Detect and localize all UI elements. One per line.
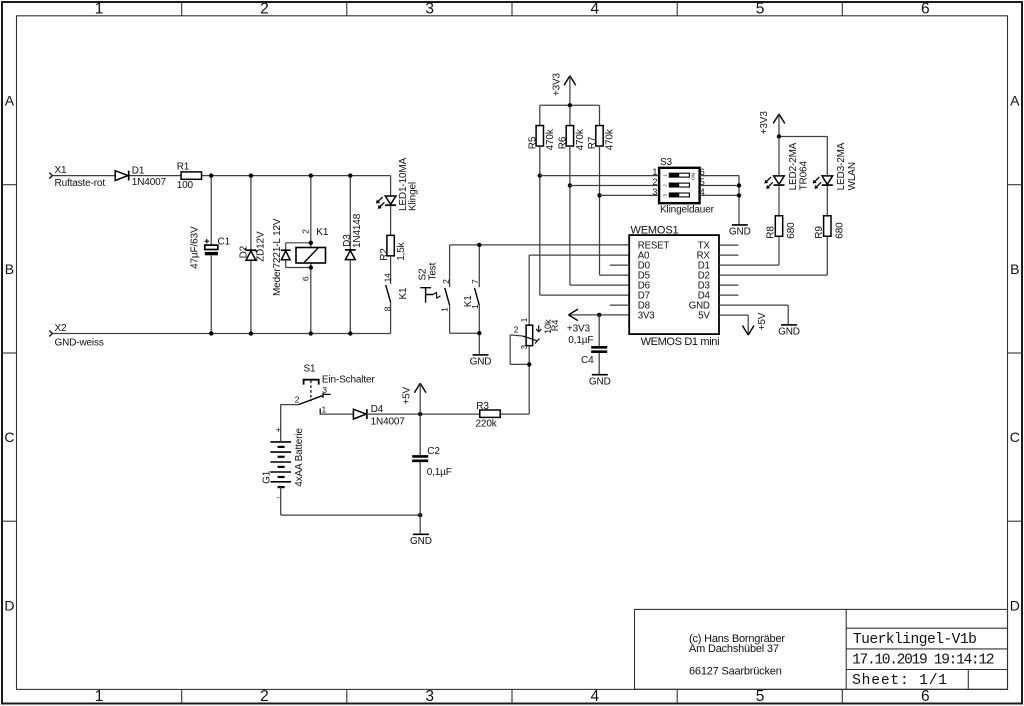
svg-text:1: 1 bbox=[95, 688, 103, 705]
wire D5 net bbox=[600, 274, 630, 276]
wire R1 to LED1 corner bbox=[201, 175, 390, 177]
svg-text:B: B bbox=[5, 261, 14, 277]
wire top to D3 bbox=[349, 176, 351, 250]
ground bbox=[410, 534, 432, 547]
svg-text:X2: X2 bbox=[55, 323, 68, 334]
svg-text:C2: C2 bbox=[427, 446, 440, 457]
wire LED3 to R9 bbox=[826, 186, 828, 216]
svg-text:47µF/63V: 47µF/63V bbox=[189, 226, 200, 269]
svg-text:2: 2 bbox=[295, 394, 300, 404]
capacitor C1 47uF/63V bbox=[189, 226, 230, 269]
connector pin X1 bbox=[49, 165, 105, 189]
node R7-S3.3 junction bbox=[597, 193, 601, 197]
LED2 LED2-2MA TR064 bbox=[764, 142, 809, 190]
resistor R7 470k bbox=[587, 126, 615, 151]
wire bus to R5 bbox=[539, 105, 541, 125]
capacitor C4 0,1uF bbox=[568, 335, 607, 366]
svg-text:+3V3: +3V3 bbox=[567, 323, 591, 334]
resistor R5 470k bbox=[527, 126, 556, 151]
svg-text:B: B bbox=[1010, 261, 1019, 277]
node 5V node bbox=[418, 412, 422, 416]
svg-text:680: 680 bbox=[786, 222, 797, 239]
switch S1 Ein-Schalter bbox=[295, 364, 376, 415]
wire to GND bbox=[419, 515, 421, 534]
wire S3.6 to gnd bbox=[700, 175, 739, 177]
svg-text:GND: GND bbox=[589, 376, 611, 387]
node LED bus junction bbox=[777, 134, 781, 138]
ground bbox=[729, 225, 751, 238]
node RESET net junction bbox=[477, 243, 481, 247]
svg-text:3V3: 3V3 bbox=[638, 311, 655, 322]
node K1 coil bottom bbox=[309, 265, 313, 269]
svg-text:R3: R3 bbox=[476, 401, 489, 412]
IC U WEMOS1 WEMOS D1 mini bbox=[629, 224, 719, 348]
wire S3.4 to gnd bbox=[700, 194, 739, 196]
svg-text:GND: GND bbox=[410, 536, 432, 547]
wire S3 row2 bbox=[570, 185, 659, 187]
svg-text:+: + bbox=[276, 425, 281, 435]
node top net x=350.3 bbox=[348, 173, 352, 177]
wire 3V3 led bus bbox=[779, 136, 827, 138]
svg-text:6: 6 bbox=[921, 1, 929, 18]
wire R9 to D2 net bbox=[826, 236, 828, 275]
wire X1 to D1 bbox=[52, 175, 116, 177]
svg-text:3: 3 bbox=[652, 187, 657, 197]
wire R5 down to D7 net bbox=[539, 146, 541, 295]
relay contact K1 pins 7/1 bbox=[463, 279, 480, 309]
svg-text:1N4148: 1N4148 bbox=[352, 213, 363, 248]
wire D4 stub bbox=[719, 294, 738, 296]
wire 3V3 net bbox=[569, 314, 630, 316]
svg-text:Ein-Schalter: Ein-Schalter bbox=[322, 374, 375, 385]
wire D4 to R3 bbox=[367, 413, 480, 415]
svg-text:1,5k: 1,5k bbox=[396, 241, 407, 260]
svg-text:14: 14 bbox=[382, 273, 392, 283]
wire C4 to GND bbox=[598, 353, 600, 375]
wire to GND bbox=[478, 333, 480, 354]
node gnd net junction bbox=[477, 331, 481, 335]
svg-text:C1: C1 bbox=[218, 236, 231, 247]
svg-text:470k: 470k bbox=[604, 128, 615, 150]
svg-text:3: 3 bbox=[425, 1, 433, 18]
wire R2 to K1 contact bbox=[390, 256, 392, 284]
svg-text:+5V: +5V bbox=[402, 386, 413, 404]
node R5-S3.1 junction bbox=[538, 173, 542, 177]
svg-text:1: 1 bbox=[322, 404, 327, 414]
battery G1 4xAA Batterie bbox=[262, 425, 305, 502]
wire D7 net bbox=[540, 294, 629, 296]
svg-text:3: 3 bbox=[519, 345, 529, 350]
svg-text:C: C bbox=[4, 429, 14, 445]
svg-text:R4: R4 bbox=[550, 320, 560, 331]
svg-text:470k: 470k bbox=[575, 128, 586, 150]
ground bbox=[589, 375, 611, 388]
wire LED1 to R2 bbox=[390, 206, 392, 236]
node top net x=310.8 bbox=[309, 173, 313, 177]
wire K1 coil to X2 net bbox=[310, 263, 312, 334]
svg-text:680: 680 bbox=[835, 222, 846, 239]
svg-text:R9: R9 bbox=[814, 226, 825, 239]
wire gnd net bbox=[450, 332, 480, 334]
node top net x=211.2 bbox=[209, 173, 213, 177]
svg-text:1N4007: 1N4007 bbox=[132, 177, 167, 188]
svg-text:GND-weiss: GND-weiss bbox=[55, 338, 104, 349]
supply +5V arrow bbox=[742, 312, 768, 335]
node X2 net x=211.2 bbox=[209, 331, 213, 335]
svg-text:3: 3 bbox=[425, 688, 433, 705]
resistor R6 470k bbox=[557, 126, 586, 151]
ground bbox=[470, 355, 492, 368]
svg-text:ON: ON bbox=[691, 173, 696, 180]
svg-text:-: - bbox=[277, 493, 280, 503]
node R4 node bbox=[527, 362, 531, 366]
resistor R3 220k bbox=[476, 401, 501, 430]
svg-text:1N4007: 1N4007 bbox=[371, 416, 406, 427]
wire D1 net bbox=[719, 264, 779, 266]
svg-text:S3: S3 bbox=[660, 157, 673, 168]
svg-text:G1: G1 bbox=[262, 470, 273, 484]
wire D1 to R1 bbox=[129, 175, 182, 177]
svg-text:5: 5 bbox=[756, 688, 764, 705]
svg-text:1: 1 bbox=[652, 167, 657, 177]
supply +5V arrow bbox=[402, 383, 426, 404]
svg-text:X1: X1 bbox=[55, 165, 68, 176]
wire RESET net bbox=[450, 244, 630, 246]
svg-text:Tuerklingel-V1b: Tuerklingel-V1b bbox=[853, 632, 976, 648]
connector pin X2 bbox=[49, 323, 104, 349]
wire D2 net bbox=[719, 274, 827, 276]
supply +3V3 arrow bbox=[759, 111, 785, 135]
wire R4 wiper to node bbox=[510, 363, 529, 365]
wire K1 contact 2 to gnd net bbox=[478, 305, 480, 333]
svg-text:WEMOS D1 mini: WEMOS D1 mini bbox=[641, 336, 720, 348]
ground bbox=[778, 325, 800, 338]
wire X2 net bbox=[52, 333, 390, 335]
wire D3 stub bbox=[719, 284, 738, 286]
svg-text:Sheet: 1/1: Sheet: 1/1 bbox=[852, 673, 948, 689]
wire R3 to pot node bbox=[500, 413, 529, 415]
wire to LED3 bbox=[826, 137, 828, 176]
wire S3 gnd vertical bbox=[738, 176, 740, 225]
wire +3V3 stem bbox=[569, 76, 571, 106]
svg-text:C: C bbox=[1010, 429, 1020, 445]
svg-text:4: 4 bbox=[591, 688, 600, 705]
title block bbox=[635, 609, 1008, 689]
node 3V3 bus junction bbox=[568, 103, 572, 107]
svg-text:C4: C4 bbox=[581, 355, 594, 366]
svg-text:R8: R8 bbox=[766, 226, 777, 239]
switch S2 Test bbox=[418, 262, 451, 312]
wire top to C1 bbox=[210, 176, 212, 246]
svg-text:R5: R5 bbox=[527, 136, 538, 149]
wire to C4 bbox=[598, 315, 600, 347]
node S3.5 junction bbox=[737, 183, 741, 187]
capacitor C2 0,1uF bbox=[412, 446, 452, 478]
svg-text:Klingeldauer: Klingeldauer bbox=[660, 204, 715, 215]
wire to C2 bbox=[419, 414, 421, 456]
wire D8 stub bbox=[610, 304, 629, 306]
svg-text:LED2-2MA: LED2-2MA bbox=[788, 142, 799, 190]
node R6-S3.2 junction bbox=[568, 183, 572, 187]
svg-text:7: 7 bbox=[470, 279, 480, 284]
wire battery top bbox=[280, 405, 282, 442]
svg-text:K1: K1 bbox=[398, 287, 409, 300]
svg-text:6: 6 bbox=[921, 688, 929, 705]
wire S2 to gnd net bbox=[449, 305, 451, 333]
svg-text:100: 100 bbox=[177, 180, 194, 191]
svg-text:GND: GND bbox=[778, 327, 800, 338]
svg-text:220k: 220k bbox=[476, 419, 498, 430]
relay contact K1 pins 14/8 bbox=[382, 273, 409, 311]
LED3 LED3-2MA WLAN bbox=[813, 142, 858, 190]
wire bus to R6 bbox=[569, 105, 571, 125]
node C4 node bbox=[597, 313, 601, 317]
svg-text:8: 8 bbox=[382, 306, 392, 311]
wire R7 down to D5 net bbox=[599, 146, 601, 275]
svg-text:GND: GND bbox=[470, 357, 492, 368]
wire R6 down to D6 net bbox=[569, 146, 571, 285]
svg-text:470k: 470k bbox=[545, 128, 556, 150]
node battery gnd node bbox=[418, 513, 422, 517]
wire +3V3 stem bbox=[778, 114, 780, 137]
svg-text:Ruftaste-rot: Ruftaste-rot bbox=[55, 178, 106, 189]
wire node down to R3 bbox=[528, 364, 530, 414]
wire S1 to D4 bbox=[320, 413, 353, 415]
svg-text:2: 2 bbox=[514, 324, 519, 334]
svg-text:2: 2 bbox=[260, 688, 268, 705]
svg-text:2: 2 bbox=[652, 177, 657, 187]
svg-text:D1: D1 bbox=[132, 165, 145, 176]
node X2 net x=250.9 bbox=[249, 331, 253, 335]
svg-text:66127 Saarbrücken: 66127 Saarbrücken bbox=[689, 665, 782, 677]
wire battery to gnd node bbox=[281, 514, 421, 516]
svg-text:1: 1 bbox=[440, 307, 450, 312]
wire K1 contact to X2 net bbox=[390, 302, 392, 333]
wire A0 net bbox=[529, 254, 629, 256]
svg-text:D2: D2 bbox=[238, 245, 249, 258]
svg-text:3: 3 bbox=[322, 385, 327, 395]
svg-text:WEMOS1: WEMOS1 bbox=[631, 224, 679, 236]
wire LED2 to R8 bbox=[778, 186, 780, 216]
svg-text:A: A bbox=[5, 93, 15, 109]
wire S3.5 to gnd bbox=[700, 185, 739, 187]
svg-text:6: 6 bbox=[300, 276, 310, 281]
node S3.4 junction bbox=[737, 193, 741, 197]
resistor R1 100 bbox=[177, 162, 202, 192]
zener diode D2 ZD12V bbox=[238, 231, 266, 262]
svg-text:2: 2 bbox=[260, 1, 268, 18]
diode D3 1N4148 bbox=[342, 213, 363, 259]
wire +5V stem bbox=[419, 383, 421, 414]
svg-text:Am Dachshübel 37: Am Dachshübel 37 bbox=[689, 643, 779, 655]
svg-text:R1: R1 bbox=[177, 162, 190, 173]
svg-text:LED3-2MA: LED3-2MA bbox=[836, 142, 847, 190]
wire GND net bbox=[719, 304, 788, 306]
wire D6 net bbox=[570, 284, 629, 286]
svg-text:K1: K1 bbox=[463, 295, 474, 308]
svg-text:2: 2 bbox=[441, 279, 451, 284]
svg-text:0,1µF: 0,1µF bbox=[427, 467, 452, 478]
supply +3V3 arrow bbox=[551, 72, 575, 96]
svg-text:K1: K1 bbox=[316, 227, 329, 238]
svg-text:Test: Test bbox=[427, 262, 438, 280]
wire S3 row3 bbox=[600, 194, 660, 196]
svg-text:1: 1 bbox=[519, 317, 529, 322]
svg-text:4: 4 bbox=[591, 1, 600, 18]
wire bus to R7 bbox=[599, 105, 601, 125]
svg-text:D: D bbox=[4, 597, 14, 613]
wire top to D2 bbox=[250, 176, 252, 251]
wire corner down to LED1 bbox=[390, 176, 392, 196]
svg-text:R6: R6 bbox=[557, 136, 568, 149]
wire R8 to D1 net bbox=[778, 236, 780, 265]
svg-text:D: D bbox=[1010, 597, 1020, 613]
node X2 net x=350.3 bbox=[348, 331, 352, 335]
svg-text:+5V: +5V bbox=[757, 312, 768, 330]
wire C2 down bbox=[419, 462, 421, 515]
resistor R8 680 bbox=[766, 216, 798, 239]
relay coil K1 Meder7221-L 12V bbox=[272, 218, 329, 296]
wire down to S2 bbox=[449, 245, 451, 287]
wire R4 wiper bbox=[510, 335, 522, 336]
svg-text:1: 1 bbox=[95, 1, 103, 18]
svg-text:A: A bbox=[1010, 93, 1020, 109]
diode D4 1N4007 bbox=[353, 404, 405, 427]
svg-text:Klingel: Klingel bbox=[408, 182, 419, 211]
wire A0 down to R4 bbox=[528, 255, 530, 325]
wire RX stub bbox=[719, 254, 738, 256]
svg-text:R7: R7 bbox=[587, 136, 598, 149]
node K1 coil top bbox=[309, 241, 313, 245]
wire D3 to X2 net bbox=[349, 260, 351, 334]
svg-text:ZD12V: ZD12V bbox=[256, 231, 267, 262]
wire C1 to X2 net bbox=[210, 255, 212, 333]
node top net x=250.9 bbox=[249, 173, 253, 177]
DIP switch S3 Klingeldauer bbox=[652, 157, 714, 215]
svg-text:Meder7221-L 12V: Meder7221-L 12V bbox=[272, 218, 283, 296]
svg-text:TR064: TR064 bbox=[799, 161, 810, 191]
wire to LED2 bbox=[778, 137, 780, 176]
svg-text:WLAN: WLAN bbox=[847, 162, 858, 190]
wire D0 stub bbox=[610, 264, 629, 266]
svg-text:5: 5 bbox=[756, 1, 764, 18]
wire R4 pin3 to node bbox=[528, 346, 530, 365]
supply +3V3 arrow bbox=[567, 309, 591, 334]
wire TX stub bbox=[719, 244, 738, 246]
trimmer R4 10k bbox=[514, 317, 560, 349]
svg-text:R2: R2 bbox=[379, 248, 390, 261]
wire 5V net bbox=[719, 314, 748, 316]
svg-text:S1: S1 bbox=[304, 364, 317, 375]
wire top to K1 coil bbox=[310, 176, 312, 248]
wire battery bottom bbox=[280, 487, 282, 515]
diode D1 1N4007 bbox=[115, 165, 166, 188]
svg-text:GND: GND bbox=[729, 227, 751, 238]
wire 5V down bbox=[747, 315, 749, 335]
svg-text:+3V3: +3V3 bbox=[759, 111, 770, 135]
svg-text:+3V3: +3V3 bbox=[551, 72, 562, 96]
svg-text:5V: 5V bbox=[698, 311, 710, 322]
svg-text:0,1µF: 0,1µF bbox=[568, 335, 593, 346]
resistor R9 680 bbox=[814, 216, 846, 239]
wire D2 to X2 net bbox=[250, 260, 252, 333]
node X2 net x=310.8 bbox=[309, 331, 313, 335]
wire S3 row1 bbox=[540, 175, 659, 177]
LED1 LED1-10MA Klingel bbox=[376, 157, 419, 211]
svg-text:4xAA Batterie: 4xAA Batterie bbox=[294, 428, 305, 487]
resistor R2 1,5k bbox=[379, 235, 407, 260]
wire battery to S1 bbox=[281, 404, 299, 406]
wire down to K1 contact 2 bbox=[478, 245, 480, 287]
wire 3V3 bus bbox=[540, 104, 600, 106]
svg-text:2: 2 bbox=[300, 229, 310, 234]
wire GND down bbox=[787, 305, 789, 325]
wire R4 wiper down bbox=[509, 335, 511, 365]
svg-text:17.10.2019 19:14:12: 17.10.2019 19:14:12 bbox=[852, 653, 994, 669]
